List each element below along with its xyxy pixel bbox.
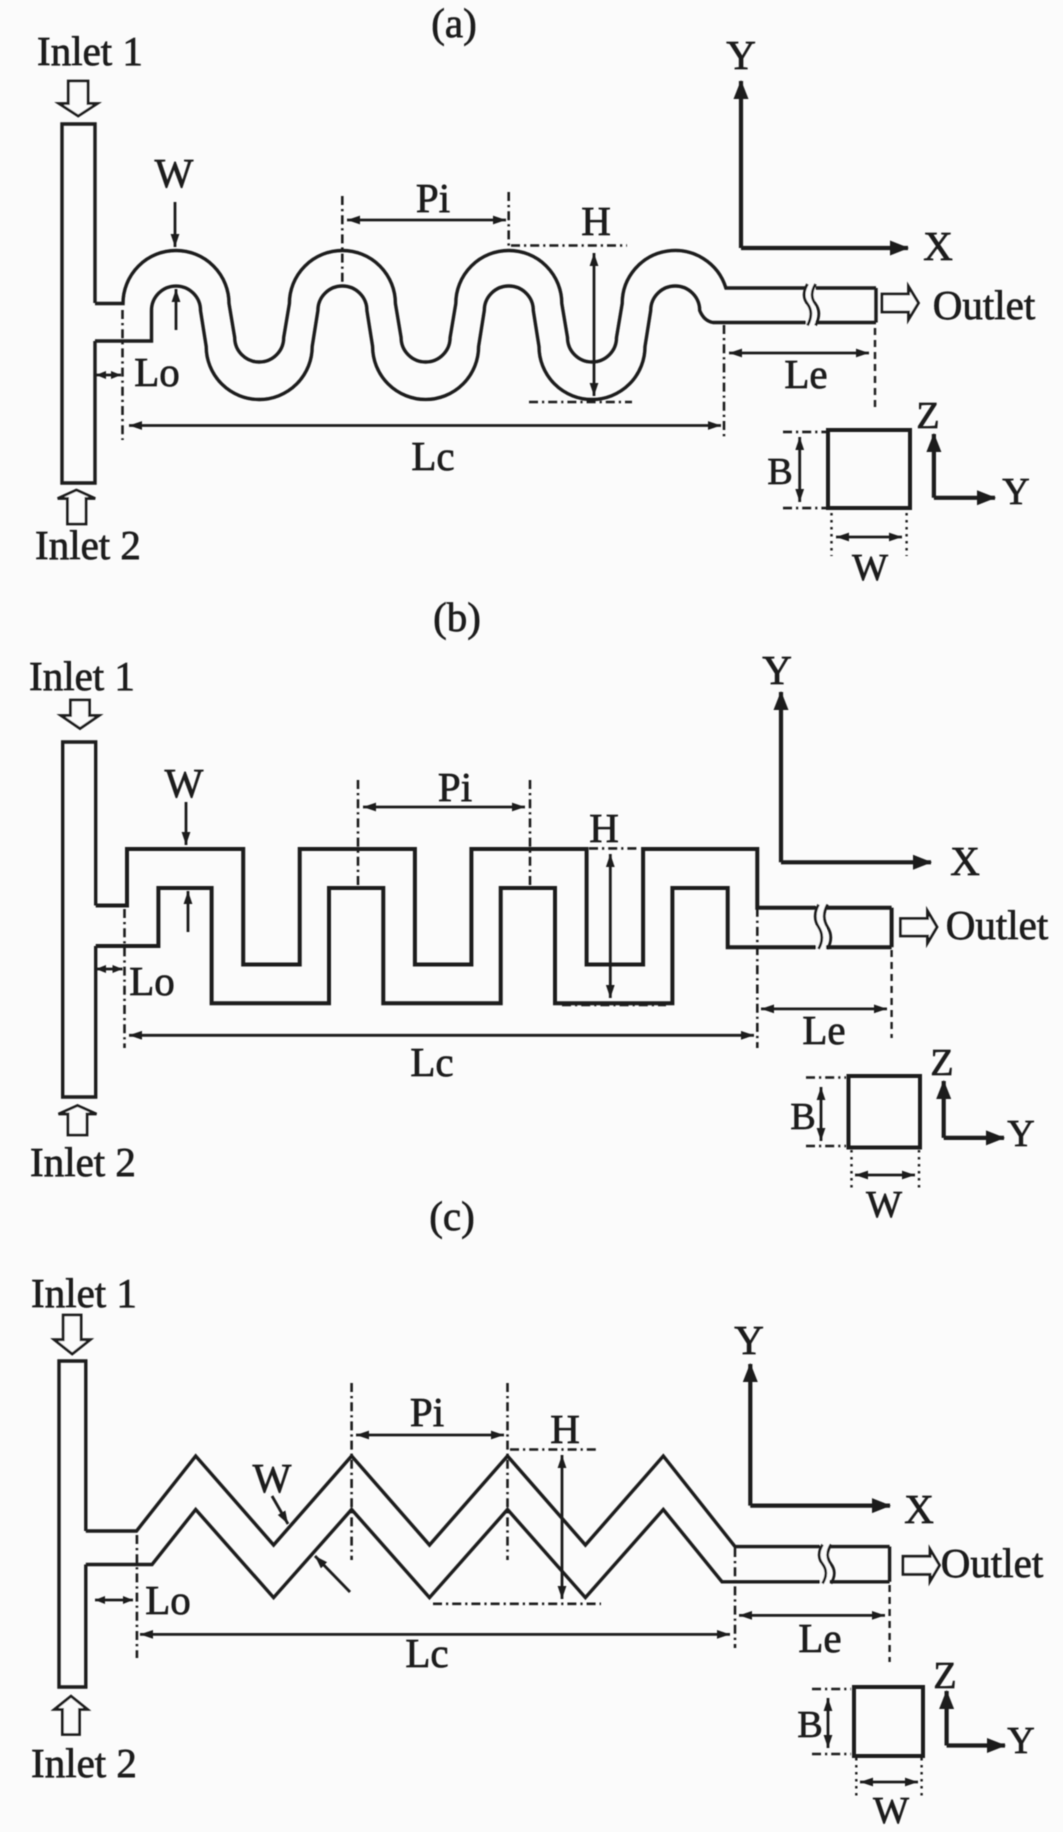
svg-text:X: X <box>950 838 980 884</box>
svg-text:Le: Le <box>784 351 827 397</box>
svg-text:Lc: Lc <box>411 433 454 479</box>
svg-text:Inlet 2: Inlet 2 <box>31 1740 137 1786</box>
svg-text:Lo: Lo <box>145 1577 191 1623</box>
svg-text:H: H <box>589 805 619 851</box>
svg-text:Outlet: Outlet <box>941 1540 1044 1586</box>
svg-text:Le: Le <box>802 1007 845 1053</box>
svg-text:H: H <box>581 198 611 244</box>
svg-text:Lo: Lo <box>129 958 175 1004</box>
svg-text:B: B <box>790 1096 815 1138</box>
svg-text:Lc: Lc <box>410 1039 453 1085</box>
svg-text:W: W <box>165 760 204 806</box>
svg-text:Inlet 1: Inlet 1 <box>31 1270 137 1316</box>
svg-text:Inlet 2: Inlet 2 <box>35 522 141 568</box>
svg-text:W: W <box>155 150 194 196</box>
svg-text:(b): (b) <box>433 594 481 640</box>
svg-text:Pi: Pi <box>410 1389 444 1435</box>
svg-text:X: X <box>904 1486 934 1532</box>
svg-text:B: B <box>797 1704 822 1746</box>
svg-text:W: W <box>866 1184 902 1226</box>
svg-text:Y: Y <box>1007 1720 1034 1762</box>
svg-text:(a): (a) <box>431 0 477 46</box>
svg-text:W: W <box>852 547 888 589</box>
svg-text:Inlet 1: Inlet 1 <box>37 28 143 74</box>
svg-text:Inlet 2: Inlet 2 <box>30 1139 136 1185</box>
svg-text:H: H <box>550 1406 580 1452</box>
svg-text:W: W <box>873 1790 909 1832</box>
svg-text:B: B <box>767 451 792 493</box>
svg-text:Y: Y <box>734 1317 764 1363</box>
svg-text:Z: Z <box>930 1042 953 1084</box>
svg-text:Pi: Pi <box>416 175 450 221</box>
svg-text:Y: Y <box>1002 471 1029 513</box>
svg-text:Outlet: Outlet <box>933 282 1036 328</box>
svg-text:Pi: Pi <box>438 764 472 810</box>
svg-text:Z: Z <box>933 1655 956 1697</box>
svg-text:Y: Y <box>1007 1113 1034 1155</box>
svg-text:Y: Y <box>762 647 792 693</box>
svg-text:Outlet: Outlet <box>946 902 1049 948</box>
svg-text:Lc: Lc <box>405 1630 448 1676</box>
svg-text:Z: Z <box>916 395 939 437</box>
svg-text:Lo: Lo <box>134 349 180 395</box>
svg-text:(c): (c) <box>429 1193 475 1239</box>
svg-text:Le: Le <box>798 1615 841 1661</box>
svg-text:W: W <box>253 1455 292 1501</box>
svg-text:Inlet 1: Inlet 1 <box>29 653 135 699</box>
svg-text:X: X <box>923 223 953 269</box>
svg-text:Y: Y <box>726 32 756 78</box>
